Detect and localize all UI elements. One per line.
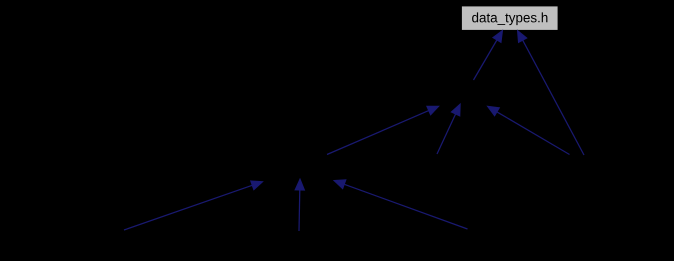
node data_types.h [462,6,558,30]
arrowhead [451,104,460,116]
arrowhead [251,181,263,190]
wire [497,112,570,155]
edge B3 to N3 [334,180,468,229]
wire [327,111,429,155]
arrowhead [334,180,346,189]
wire [474,40,497,80]
label data_types.h [472,12,547,25]
arrowhead [295,179,304,190]
arrowhead [427,106,439,115]
edge N2 to N1 [488,106,570,154]
arrowhead [493,31,503,43]
arrowhead [518,31,527,43]
wire [124,185,252,230]
wire [298,190,301,231]
wire [437,114,456,154]
wire [523,40,584,155]
edge N3 to N1 [327,106,439,154]
edge N2 to data_types.h [518,31,585,156]
wire [344,184,467,229]
edge N4 to N1 [437,104,460,154]
edge B2 to N3 [295,179,304,231]
arrowhead [488,106,500,116]
edge N1 to data_types.h [474,31,503,81]
edge B1 to N3 [124,181,263,230]
